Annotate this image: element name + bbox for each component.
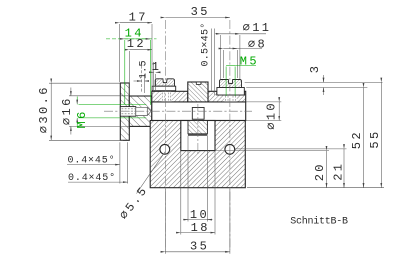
svg-text:0.4×45°: 0.4×45° <box>68 172 116 184</box>
svg-text:∅5.5: ∅5.5 <box>117 183 151 222</box>
svg-text:17: 17 <box>129 11 148 25</box>
svg-text:∅30.6: ∅30.6 <box>37 85 51 133</box>
svg-text:21: 21 <box>331 162 345 181</box>
svg-text:∅8: ∅8 <box>248 38 267 52</box>
svg-text:20: 20 <box>313 162 327 181</box>
svg-text:0.5×45°: 0.5×45° <box>200 22 212 66</box>
svg-text:M5: M5 <box>240 55 259 69</box>
svg-text:12: 12 <box>127 37 146 51</box>
svg-text:SchnittB-B: SchnittB-B <box>290 215 348 227</box>
svg-text:M6: M6 <box>75 109 89 128</box>
svg-text:52: 52 <box>350 130 364 149</box>
svg-text:∅10: ∅10 <box>264 101 278 130</box>
svg-text:∅16: ∅16 <box>60 96 74 125</box>
svg-text:3: 3 <box>308 64 322 74</box>
svg-text:35: 35 <box>191 5 210 19</box>
svg-text:35: 35 <box>190 240 209 254</box>
svg-text:1: 1 <box>152 60 162 74</box>
svg-text:10: 10 <box>190 208 209 222</box>
svg-text:55: 55 <box>368 129 382 148</box>
svg-text:∅11: ∅11 <box>243 21 272 35</box>
svg-text:18: 18 <box>191 221 210 235</box>
svg-text:1.5: 1.5 <box>138 60 149 79</box>
svg-text:0.4×45°: 0.4×45° <box>68 154 116 166</box>
